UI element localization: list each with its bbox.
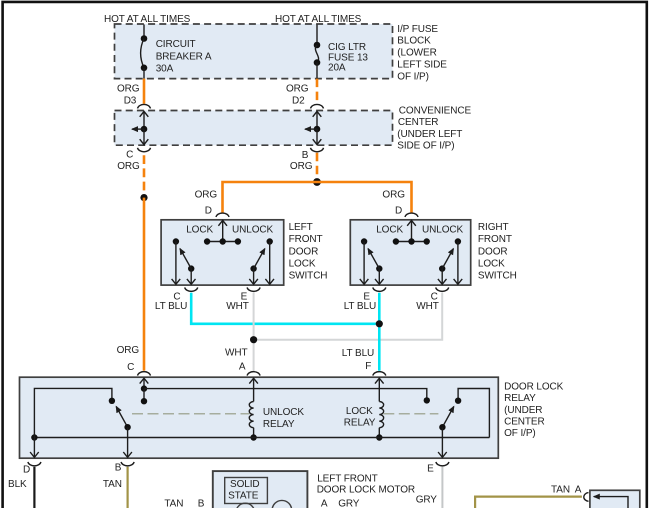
svg-text:ORG: ORG bbox=[117, 161, 140, 172]
wire ground bus to pin D bbox=[30, 438, 39, 458]
label motor pin A GRY bbox=[321, 498, 360, 508]
svg-text:ORG: ORG bbox=[117, 84, 140, 95]
wire TAN A to rear door module bbox=[475, 485, 582, 508]
splice ORG to door lock switches bbox=[313, 178, 321, 186]
svg-text:OF I/P): OF I/P) bbox=[504, 428, 536, 439]
left front door lock switch S1 bbox=[161, 220, 327, 285]
svg-text:D: D bbox=[23, 465, 30, 476]
connector D3 bbox=[138, 104, 151, 108]
unlock relay rest contact bbox=[109, 398, 115, 404]
svg-text:LOCK: LOCK bbox=[186, 224, 213, 235]
relay pin A entry arrow bbox=[249, 378, 258, 401]
svg-text:30A: 30A bbox=[156, 63, 174, 74]
svg-text:BLK: BLK bbox=[8, 479, 27, 490]
svg-text:FRONT: FRONT bbox=[289, 234, 323, 245]
unlock relay rest contact riser bbox=[34, 388, 112, 437]
svg-text:(LOWER: (LOWER bbox=[397, 48, 436, 59]
convenience center internal circuit D2 to B bbox=[305, 111, 321, 144]
battery rail C to lock contact bbox=[144, 389, 427, 401]
wire ORG breaker to connector D3 bbox=[117, 79, 144, 107]
wire ORG fuse 13 to connector D2 (dashed) bbox=[286, 79, 317, 107]
unlock relay actuation link (dashed) bbox=[132, 413, 249, 415]
svg-text:STATE: STATE bbox=[228, 490, 259, 501]
svg-text:RIGHT: RIGHT bbox=[478, 222, 509, 233]
svg-text:DOOR LOCK MOTOR: DOOR LOCK MOTOR bbox=[317, 485, 415, 496]
svg-text:CENTER: CENTER bbox=[398, 117, 439, 128]
connector D (relay output BLK) bbox=[8, 462, 41, 490]
wire GRY relay E to motor bbox=[441, 467, 443, 508]
motor armature circle right bbox=[272, 500, 292, 508]
label WHT A at relay bbox=[225, 347, 247, 372]
svg-text:RELAY: RELAY bbox=[263, 419, 295, 430]
wire ORG B to splice (dashed) bbox=[316, 153, 319, 179]
connector B (relay output TAN) bbox=[103, 462, 134, 490]
svg-text:LEFT: LEFT bbox=[289, 222, 313, 233]
wire WHT left switch E through splice to relay A bbox=[253, 293, 255, 371]
wire WHT right switch C to splice bbox=[257, 293, 442, 340]
splice LT BLU bbox=[376, 320, 383, 327]
wire LT BLU left switch C to splice bbox=[191, 293, 376, 324]
wire ORG C to splice (dashed) bbox=[143, 155, 146, 195]
svg-text:A: A bbox=[239, 361, 246, 372]
lock relay rest contact riser bbox=[458, 389, 489, 438]
rear module internal wire with arrow bbox=[594, 497, 628, 508]
svg-text:D3: D3 bbox=[124, 95, 137, 106]
wire armature to pin E bbox=[438, 427, 447, 457]
svg-text:E: E bbox=[427, 464, 434, 475]
convenience center internal circuit D3 to C bbox=[132, 111, 148, 144]
connector C (left switch, LT BLU) bbox=[155, 287, 198, 312]
connector C (right switch, WHT) bbox=[416, 287, 448, 312]
connector E (left switch, WHT) bbox=[226, 287, 260, 312]
svg-text:SWITCH: SWITCH bbox=[478, 271, 517, 282]
unlock relay coil bbox=[249, 402, 304, 438]
unlock relay armature blade bbox=[116, 407, 127, 428]
svg-text:LT BLU: LT BLU bbox=[155, 301, 187, 312]
svg-text:GRY: GRY bbox=[416, 495, 438, 506]
unlock relay armature pivot bbox=[124, 424, 130, 430]
rear door module box bbox=[590, 490, 640, 508]
svg-text:(UNDER: (UNDER bbox=[504, 405, 542, 416]
wire hot feed to circuit breaker A bbox=[143, 25, 145, 39]
svg-text:TAN: TAN bbox=[103, 479, 122, 490]
svg-text:A: A bbox=[575, 485, 582, 496]
svg-text:LT BLU: LT BLU bbox=[342, 348, 374, 359]
lock relay coil bbox=[344, 402, 384, 438]
unlock relay battery contact stub bbox=[143, 389, 145, 402]
svg-text:WHT: WHT bbox=[416, 301, 438, 312]
svg-text:D: D bbox=[395, 206, 402, 217]
wire hot feed to fuse 13 bbox=[316, 25, 318, 46]
svg-text:TAN: TAN bbox=[164, 499, 183, 508]
door lock relay box bbox=[20, 377, 564, 458]
svg-text:UNLOCK: UNLOCK bbox=[422, 224, 464, 235]
fuse 13 CIG LTR 20A bbox=[314, 42, 369, 79]
label motor pin B TAN bbox=[164, 499, 204, 508]
wire ORG splice to relay C bbox=[117, 198, 144, 373]
svg-text:ORG: ORG bbox=[117, 345, 140, 356]
I/P fuse block box bbox=[115, 24, 448, 82]
svg-text:ORG: ORG bbox=[382, 189, 405, 200]
svg-text:C: C bbox=[126, 150, 133, 161]
svg-text:SOLID: SOLID bbox=[230, 479, 260, 490]
svg-text:C: C bbox=[127, 362, 134, 373]
svg-text:CONVENIENCE: CONVENIENCE bbox=[399, 105, 472, 116]
svg-text:UNLOCK: UNLOCK bbox=[232, 224, 274, 235]
svg-text:B: B bbox=[302, 150, 309, 161]
svg-text:RELAY: RELAY bbox=[504, 393, 536, 404]
svg-text:B: B bbox=[198, 499, 205, 508]
label LT BLU F at relay bbox=[342, 348, 374, 372]
wire ORG splice to both switch connectors D bbox=[223, 182, 412, 213]
svg-text:BREAKER A: BREAKER A bbox=[156, 51, 212, 62]
svg-text:(UNDER LEFT: (UNDER LEFT bbox=[397, 129, 462, 140]
svg-text:OF I/P): OF I/P) bbox=[397, 71, 429, 82]
wire TAN relay B to motor bbox=[126, 467, 128, 508]
junction battery rail at C bbox=[141, 385, 147, 391]
svg-text:UNLOCK: UNLOCK bbox=[263, 407, 305, 418]
svg-text:SWITCH: SWITCH bbox=[289, 271, 328, 282]
connector A (rear module) bbox=[584, 493, 589, 502]
connector C (convenience center) bbox=[117, 148, 150, 172]
lock relay armature blade bbox=[442, 407, 453, 428]
svg-text:LOCK: LOCK bbox=[478, 259, 505, 270]
lock relay battery contact bbox=[424, 397, 430, 403]
svg-text:ORG: ORG bbox=[290, 161, 313, 172]
connector D (right front door lock switch) bbox=[395, 206, 418, 217]
svg-text:A: A bbox=[321, 498, 328, 508]
svg-text:FRONT: FRONT bbox=[478, 234, 512, 245]
junction unlock coil to ground bus bbox=[250, 434, 256, 440]
svg-text:B: B bbox=[115, 463, 122, 474]
svg-text:DOOR: DOOR bbox=[289, 246, 319, 257]
connector E (relay output GRY) bbox=[416, 462, 449, 506]
splice WHT bbox=[250, 336, 257, 343]
wire LT BLU right switch E through splice to relay F bbox=[378, 293, 381, 371]
connector D2 bbox=[311, 104, 324, 108]
connector A (door lock relay) bbox=[247, 372, 260, 376]
svg-text:GRY: GRY bbox=[338, 498, 360, 508]
connector F (door lock relay) bbox=[373, 372, 386, 376]
svg-text:LOCK: LOCK bbox=[376, 224, 403, 235]
svg-text:LT BLU: LT BLU bbox=[344, 301, 376, 312]
splice on ORG wire bbox=[140, 194, 147, 201]
svg-text:LEFT SIDE: LEFT SIDE bbox=[397, 59, 447, 70]
svg-text:D2: D2 bbox=[292, 95, 305, 106]
lock relay actuation link (dashed) bbox=[383, 413, 438, 415]
connector C (door lock relay) bbox=[138, 372, 151, 376]
svg-text:F: F bbox=[365, 361, 371, 372]
svg-text:CIG LTR: CIG LTR bbox=[328, 42, 366, 53]
junction ground bus at D bbox=[31, 434, 37, 440]
motor armature circle left bbox=[236, 503, 255, 508]
circuit breaker A 30A bbox=[141, 35, 212, 78]
relay pin C entry arrow bbox=[140, 378, 149, 388]
junction lock coil to ground bus bbox=[376, 434, 382, 440]
relay pin F entry arrow bbox=[375, 378, 384, 401]
svg-text:LEFT FRONT: LEFT FRONT bbox=[317, 474, 378, 485]
convenience center box bbox=[115, 105, 472, 151]
svg-text:D: D bbox=[205, 206, 212, 217]
svg-text:LOCK: LOCK bbox=[289, 259, 316, 270]
svg-text:CENTER: CENTER bbox=[504, 416, 545, 427]
svg-text:RELAY: RELAY bbox=[344, 418, 376, 429]
svg-text:ORG: ORG bbox=[286, 84, 309, 95]
svg-text:WHT: WHT bbox=[225, 347, 247, 358]
svg-text:I/P FUSE: I/P FUSE bbox=[397, 24, 438, 35]
svg-text:FUSE 13: FUSE 13 bbox=[328, 52, 368, 63]
unlock relay battery contact bbox=[141, 398, 147, 404]
svg-text:DOOR: DOOR bbox=[478, 246, 508, 257]
solid state module inside motor bbox=[225, 478, 268, 504]
svg-text:DOOR LOCK: DOOR LOCK bbox=[504, 382, 564, 393]
lock relay rest contact bbox=[455, 398, 461, 404]
wire armature to pin B bbox=[123, 427, 132, 457]
svg-text:TAN: TAN bbox=[551, 485, 570, 496]
svg-text:BLOCK: BLOCK bbox=[397, 36, 431, 47]
svg-text:ORG: ORG bbox=[195, 189, 218, 200]
left front door lock motor box bbox=[213, 471, 415, 508]
svg-text:WHT: WHT bbox=[226, 301, 248, 312]
connector E (right switch, LT BLU) bbox=[344, 287, 386, 312]
lock relay armature pivot bbox=[439, 424, 445, 430]
wire BLK relay D to ground bbox=[33, 467, 35, 508]
ground bus wire bbox=[34, 437, 489, 439]
svg-text:20A: 20A bbox=[328, 63, 346, 74]
connector D (left front door lock switch) bbox=[205, 206, 229, 217]
svg-text:SIDE OF I/P): SIDE OF I/P) bbox=[397, 141, 454, 152]
connector B (convenience center) bbox=[290, 148, 324, 172]
svg-text:LOCK: LOCK bbox=[346, 406, 373, 417]
right front door lock switch S2 bbox=[350, 220, 516, 285]
svg-text:CIRCUIT: CIRCUIT bbox=[156, 39, 196, 50]
